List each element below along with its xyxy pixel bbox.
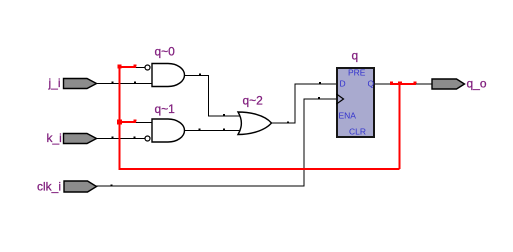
and-gate q~0 bbox=[145, 45, 185, 87]
wire clk_i to flip-flop clock bbox=[96, 97, 337, 187]
clock triangle bbox=[337, 94, 344, 104]
svg-text:D: D bbox=[340, 78, 346, 88]
svg-text:q~1: q~1 bbox=[155, 102, 176, 116]
wire q~1 output to q~2 bottom input bbox=[185, 129, 244, 131]
svg-text:PRE: PRE bbox=[348, 67, 366, 77]
svg-text:q_o: q_o bbox=[467, 77, 487, 91]
wire Q output to q_o pin bbox=[375, 83, 433, 85]
svg-text:q: q bbox=[352, 49, 359, 63]
black stub red-to-bubble q~0 bbox=[136, 67, 145, 69]
svg-text:Q: Q bbox=[368, 78, 375, 88]
input pin clk_i bbox=[37, 180, 97, 194]
wire q~2 output to flip-flop D input bbox=[272, 82, 338, 124]
input pin j_i bbox=[48, 76, 97, 90]
red feedback net from Q bbox=[120, 66, 417, 171]
wire k_i to q~1 bubble input bbox=[97, 137, 146, 139]
svg-text:q~2: q~2 bbox=[243, 94, 264, 108]
flip-flop q bbox=[337, 49, 375, 138]
wire j_i to q~0 bottom input bbox=[97, 82, 153, 84]
svg-text:j_i: j_i bbox=[48, 76, 61, 90]
input pin k_i bbox=[47, 131, 97, 145]
svg-text:CLR: CLR bbox=[349, 126, 366, 136]
black stub red-to-q~1 top input bbox=[136, 122, 152, 124]
or-gate q~2 bbox=[238, 94, 272, 135]
wire q~0 output to q~2 top input bbox=[185, 74, 244, 117]
output pin q_o bbox=[432, 77, 487, 91]
svg-text:k_i: k_i bbox=[47, 131, 62, 145]
svg-text:clk_i: clk_i bbox=[37, 180, 61, 194]
red junction/tick marks bbox=[117, 65, 417, 125]
svg-text:ENA: ENA bbox=[339, 110, 357, 120]
bubble on q~0 top input bbox=[145, 65, 150, 70]
bubble on q~1 bottom input bbox=[145, 136, 150, 141]
svg-text:q~0: q~0 bbox=[155, 45, 176, 59]
and-gate q~1 bbox=[145, 102, 185, 142]
